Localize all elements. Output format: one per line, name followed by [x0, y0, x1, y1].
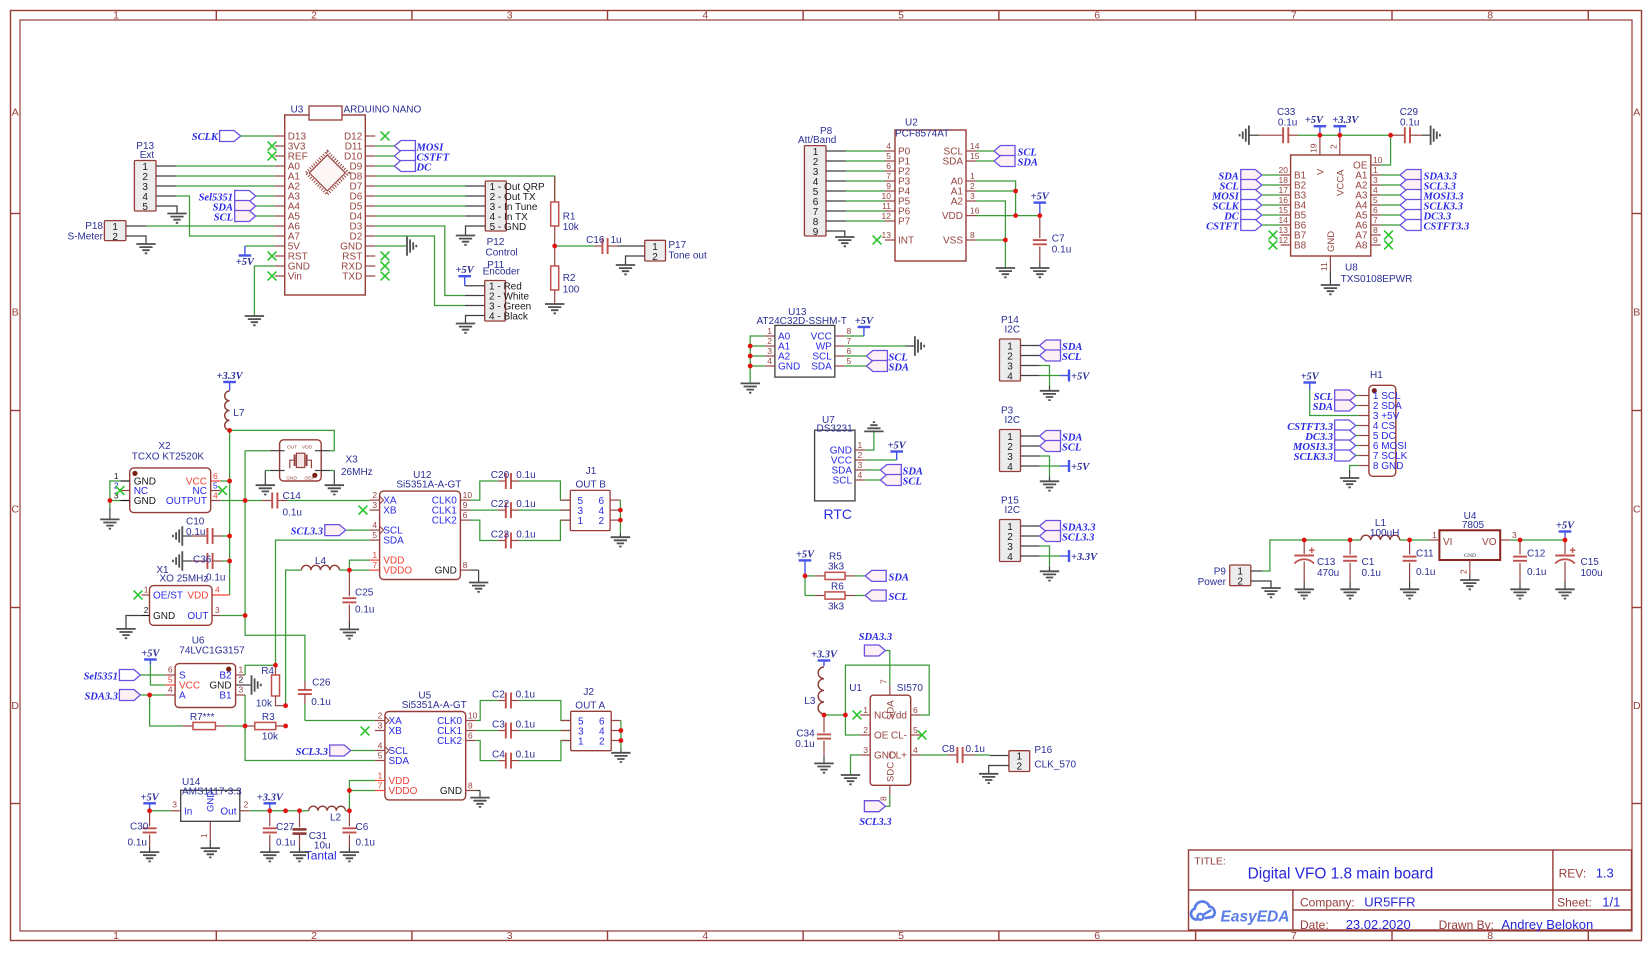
wire rail C27-C31 — [270, 810, 286, 812]
IC X1 XO 25MHz — [142, 565, 230, 625]
wire DC3.3 to H1 — [1356, 435, 1359, 437]
svg-text:5: 5 — [378, 751, 383, 761]
svg-text:SCL3.3: SCL3.3 — [1062, 533, 1094, 544]
svg-text:VDDO: VDDO — [389, 786, 418, 797]
svg-text:R4: R4 — [261, 666, 274, 677]
svg-text:4: 4 — [702, 930, 708, 942]
junction — [108, 498, 113, 503]
svg-text:0.1u: 0.1u — [516, 750, 535, 761]
svg-text:+5V: +5V — [1556, 521, 1575, 532]
capacitor C1 — [1343, 540, 1381, 589]
junction — [1013, 189, 1018, 194]
svg-text:5: 5 — [847, 356, 852, 366]
svg-text:+5V: +5V — [1305, 115, 1324, 126]
svg-text:P9: P9 — [1214, 567, 1227, 578]
junction — [243, 613, 248, 618]
svg-text:ARDUINO NANO: ARDUINO NANO — [344, 105, 422, 116]
wire P17.2 to ground — [626, 256, 645, 265]
ground — [136, 244, 155, 253]
ground — [201, 848, 220, 857]
svg-text:A8: A8 — [1355, 241, 1368, 252]
svg-text:7: 7 — [372, 560, 377, 570]
junction — [227, 534, 232, 539]
no-connect — [1269, 241, 1278, 250]
wire CL+ to C8 — [921, 754, 947, 756]
svg-text:SCL: SCL — [903, 477, 922, 488]
ground — [140, 852, 159, 861]
wire P8.5 to U2 P4 — [826, 190, 846, 192]
svg-text:B: B — [1633, 307, 1640, 319]
svg-text:C33: C33 — [1277, 107, 1296, 118]
svg-text:11: 11 — [1319, 262, 1329, 271]
svg-text:100u: 100u — [1581, 568, 1603, 579]
svg-text:C27: C27 — [276, 822, 295, 833]
svg-text:4: 4 — [858, 470, 863, 480]
wire D7 to P12.1 — [375, 185, 465, 187]
ground — [407, 236, 416, 255]
svg-text:16: 16 — [1279, 195, 1289, 205]
svg-text:0.1u: 0.1u — [356, 838, 375, 849]
net flag SCL — [1314, 390, 1356, 403]
svg-text:7: 7 — [879, 679, 889, 684]
net flag MOSI3.3 — [1292, 440, 1356, 453]
svg-text:CSTFT3.3: CSTFT3.3 — [1424, 222, 1470, 233]
svg-text:C4: C4 — [492, 750, 505, 761]
title block text — [1194, 856, 1620, 933]
svg-text:3: 3 — [858, 460, 863, 470]
svg-text:1: 1 — [114, 471, 119, 481]
ground — [979, 774, 998, 783]
wire D10 to CSTFT — [375, 155, 394, 157]
no-connect — [268, 272, 277, 281]
svg-text:C22: C22 — [491, 499, 510, 510]
svg-text:GND: GND — [778, 362, 800, 373]
power +5V — [140, 792, 159, 811]
svg-text:C12: C12 — [1527, 549, 1546, 560]
svg-text:2: 2 — [598, 516, 604, 527]
no-connect — [381, 262, 390, 271]
inductor L4 — [302, 556, 340, 570]
ground — [1295, 589, 1314, 598]
svg-text:6: 6 — [1094, 930, 1100, 942]
wire P14.1 — [1021, 345, 1040, 347]
wire P14.4 — [1021, 375, 1040, 377]
junction — [1407, 538, 1412, 543]
net flag SDA3.3 — [859, 632, 893, 656]
wire U14 Out to 3.3V rail — [250, 810, 270, 812]
svg-text:2: 2 — [767, 336, 772, 346]
resistor R5 — [805, 552, 865, 580]
ground — [116, 629, 135, 638]
svg-text:L7: L7 — [233, 408, 245, 419]
svg-text:2: 2 — [372, 490, 377, 500]
capacitor C20 — [470, 470, 570, 500]
IC U14 AMS1117-3.3 — [171, 777, 250, 840]
junction — [1318, 133, 1323, 138]
svg-text:SCL: SCL — [833, 476, 853, 487]
IC U7 DS3231 — [815, 415, 865, 522]
svg-text:2: 2 — [378, 711, 383, 721]
svg-text:OE/ST: OE/ST — [153, 591, 183, 602]
capacitor C2 — [476, 690, 571, 721]
svg-text:GND: GND — [435, 566, 457, 577]
svg-text:+5V: +5V — [855, 316, 874, 327]
svg-text:Sheet:: Sheet: — [1557, 896, 1592, 910]
net flag SCL — [880, 475, 921, 488]
svg-text:7: 7 — [847, 336, 852, 346]
svg-text:19: 19 — [1309, 143, 1319, 153]
wire Vdd loop — [845, 665, 929, 735]
net flag SCL — [1040, 441, 1082, 454]
svg-text:0.1u: 0.1u — [795, 739, 814, 750]
wire U13 SCL — [845, 355, 867, 357]
svg-text:2: 2 — [1329, 144, 1339, 149]
wire P13.4 to A7 — [156, 195, 176, 197]
svg-text:74LVC1G3157: 74LVC1G3157 — [179, 646, 245, 657]
wire X2 GND pins to ground — [110, 481, 120, 501]
svg-text:D: D — [1633, 700, 1641, 712]
capacitor C10 — [182, 517, 229, 545]
ground — [1555, 589, 1574, 598]
wire +5V node down to R6 — [804, 576, 806, 596]
svg-text:C2: C2 — [492, 690, 505, 701]
svg-text:9: 9 — [463, 500, 468, 510]
ground — [469, 583, 488, 592]
wire P15.1 — [1021, 525, 1040, 527]
IC U5 Si5351A-A-GT — [375, 691, 478, 800]
wire rail C13-C1 — [1304, 539, 1350, 541]
svg-text:2: 2 — [144, 605, 149, 615]
svg-text:100: 100 — [563, 285, 580, 296]
wire U12 GND to ground — [470, 569, 478, 571]
svg-text:SDA: SDA — [889, 573, 909, 584]
power +5V — [888, 441, 907, 461]
svg-text:C29: C29 — [1400, 107, 1419, 118]
wire rail C1-L1 — [1350, 539, 1361, 541]
wire CSTFT to U8 — [1262, 224, 1280, 226]
IC U4 7805 — [1429, 511, 1517, 575]
wire P15 ground — [1049, 556, 1051, 566]
wire P9.1 to rail — [1251, 570, 1262, 572]
no-connect — [268, 252, 277, 261]
IC U2 PCF8574AT — [882, 118, 980, 262]
capacitor C13 — [1294, 540, 1339, 589]
svg-text:10: 10 — [882, 191, 892, 201]
net flag SDA — [880, 465, 923, 478]
IC U6 74LVC1G3157 — [165, 636, 251, 708]
svg-text:I2C: I2C — [1005, 325, 1021, 336]
wire X2 VCC to 3.3V column — [221, 480, 230, 482]
no-connect — [381, 272, 390, 281]
wire MOSI to U8 — [1262, 194, 1280, 196]
power +3.3V — [1332, 115, 1359, 135]
wire P13.2 to A1 — [156, 175, 176, 177]
ground — [470, 798, 489, 807]
svg-text:20: 20 — [1279, 165, 1289, 175]
resistor R4 — [256, 665, 286, 709]
svg-text:OUT A: OUT A — [575, 701, 605, 712]
svg-text:2: 2 — [239, 675, 244, 685]
svg-text:OUT: OUT — [287, 444, 297, 450]
wire L1 to C11 — [1400, 539, 1410, 541]
no-connect — [116, 486, 125, 495]
svg-text:CLK2: CLK2 — [432, 516, 457, 527]
svg-text:8 GND: 8 GND — [1373, 461, 1404, 472]
wire column A (clock net) — [245, 451, 305, 681]
ground — [1040, 571, 1059, 580]
wire L2 to C6 node — [346, 810, 350, 812]
svg-text:C15: C15 — [1581, 557, 1600, 568]
svg-text:GND: GND — [440, 786, 462, 797]
svg-text:1: 1 — [239, 665, 244, 675]
wire U6 B2 to SDA column node — [245, 665, 275, 675]
resistor R1 — [551, 176, 580, 246]
wire P3 ground — [1049, 466, 1051, 476]
capacitor C31 tantalum — [293, 811, 337, 863]
svg-text:8: 8 — [468, 781, 473, 791]
ground — [340, 852, 359, 861]
svg-text:3: 3 — [767, 346, 772, 356]
svg-text:8: 8 — [1487, 10, 1493, 22]
svg-text:6: 6 — [463, 510, 468, 520]
svg-text:0.1u: 0.1u — [186, 527, 205, 538]
net flag SCL3.3 — [1400, 180, 1456, 193]
svg-text:0.1u: 0.1u — [355, 605, 374, 616]
wire P13.1 to A0 — [156, 165, 176, 167]
svg-text:7: 7 — [1291, 930, 1297, 942]
svg-text:GND: GND — [286, 476, 297, 482]
svg-text:5: 5 — [142, 202, 148, 213]
svg-text:+5V: +5V — [141, 649, 160, 660]
svg-text:2: 2 — [112, 232, 118, 243]
svg-text:6: 6 — [168, 665, 173, 675]
svg-text:0.1u: 0.1u — [1416, 567, 1435, 578]
svg-text:0.1u: 0.1u — [276, 838, 295, 849]
svg-text:+3.3V: +3.3V — [217, 371, 244, 382]
svg-text:L3: L3 — [804, 696, 816, 707]
wire SDA to U8 — [1262, 174, 1280, 176]
svg-text:4: 4 — [886, 141, 891, 151]
svg-text:A: A — [12, 107, 19, 119]
capacitor C3 — [476, 720, 571, 739]
svg-text:4: 4 — [213, 491, 218, 501]
svg-text:U2: U2 — [905, 118, 918, 129]
svg-text:4: 4 — [1007, 552, 1013, 563]
svg-text:GND: GND — [206, 791, 217, 812]
wire P15.4 — [1021, 555, 1040, 557]
connector P9 — [1198, 565, 1251, 588]
svg-text:1u: 1u — [611, 235, 622, 246]
svg-text:NC: NC — [874, 711, 888, 722]
wire J1 right pins to ground — [619, 500, 621, 533]
wire P8.6 to U2 P5 — [826, 200, 846, 202]
wire D4 to P12.4 — [375, 215, 465, 217]
net flag SCL3.3 — [291, 525, 346, 538]
power +5V — [1305, 115, 1326, 135]
junction — [243, 498, 248, 503]
svg-text:OE#: OE# — [305, 476, 315, 482]
ground — [864, 422, 883, 431]
title block — [1189, 850, 1632, 930]
IC U8 TXS0108EPWR — [1279, 140, 1413, 285]
wire U6 B1 down to R3 node — [244, 695, 246, 726]
power +3.3V — [217, 371, 244, 391]
svg-text:6: 6 — [1094, 10, 1100, 22]
ground — [1460, 580, 1479, 589]
wire P15.2 — [1021, 535, 1040, 537]
ground — [741, 383, 760, 392]
wire VCC to +5V — [845, 335, 864, 337]
junction — [803, 574, 808, 579]
wire VSS to ground — [976, 239, 1005, 241]
capacitor C30 — [128, 811, 157, 852]
svg-text:C1: C1 — [1362, 557, 1375, 568]
wire SDA to A4 — [256, 205, 275, 207]
wire P8.3 to U2 P2 — [826, 170, 846, 172]
svg-text:SDA: SDA — [389, 756, 410, 767]
no-connect — [1269, 231, 1278, 240]
svg-text:C36: C36 — [193, 555, 212, 566]
svg-text:13: 13 — [1279, 225, 1289, 235]
svg-text:+5V: +5V — [1301, 372, 1320, 383]
ground — [340, 629, 359, 638]
capacitor C23 — [470, 520, 570, 548]
svg-text:Tantal: Tantal — [305, 849, 337, 863]
wire 5V pin — [245, 245, 275, 247]
svg-text:SCL: SCL — [214, 213, 233, 224]
power +5V — [236, 246, 255, 268]
ground — [1340, 478, 1359, 487]
wire X3 OE to ground — [330, 470, 334, 472]
svg-text:P7: P7 — [898, 217, 911, 228]
svg-text:7: 7 — [886, 171, 891, 181]
svg-text:Vdd: Vdd — [889, 711, 907, 722]
wire D8 to R1 — [375, 176, 554, 202]
svg-text:A: A — [1633, 107, 1640, 119]
svg-text:TXD: TXD — [342, 272, 362, 283]
inductor L7 — [225, 391, 245, 430]
wire SCL to U8 — [1262, 184, 1280, 186]
wire VCCA node to OE — [1340, 134, 1391, 136]
svg-text:VDD: VDD — [942, 211, 963, 222]
svg-text:Vin: Vin — [288, 272, 302, 283]
net flag SDA — [866, 361, 909, 374]
svg-text:0.1u: 0.1u — [516, 720, 535, 731]
svg-text:5: 5 — [213, 481, 218, 491]
IC U3 ARDUINO NANO — [275, 105, 422, 296]
net flag SCLK — [192, 131, 241, 144]
wire P16.2 to ground — [989, 766, 1009, 774]
ground — [1400, 589, 1419, 598]
connector P15 — [1000, 496, 1021, 563]
svg-text:Date:: Date: — [1300, 918, 1329, 932]
junction — [227, 479, 232, 484]
ground — [611, 753, 630, 762]
svg-text:PCF8574AT: PCF8574AT — [895, 129, 949, 140]
net flag Sel5351 — [199, 191, 256, 204]
svg-text:0.1u: 0.1u — [206, 573, 225, 584]
svg-text:C30: C30 — [130, 822, 149, 833]
capacitor C11 — [1403, 540, 1436, 589]
wire +5V rail to U8 top — [1298, 134, 1320, 136]
svg-text:1: 1 — [113, 930, 119, 942]
svg-text:X3: X3 — [346, 455, 359, 466]
capacitor C15 — [1555, 540, 1603, 589]
svg-text:5: 5 — [1373, 195, 1378, 205]
wire U4 GND to ground — [1469, 575, 1471, 580]
svg-text:Si5351A-A-GT: Si5351A-A-GT — [402, 700, 467, 711]
wire DC to U8 — [1262, 214, 1280, 216]
svg-text:2: 2 — [244, 800, 249, 810]
svg-text:9: 9 — [1373, 235, 1378, 245]
net flag SDA — [865, 570, 909, 583]
svg-text:8: 8 — [463, 560, 468, 570]
junction — [283, 703, 288, 708]
inductor L2 — [309, 806, 346, 823]
svg-text:4: 4 — [702, 10, 708, 22]
wire R1R2 node to C16 — [555, 245, 595, 247]
svg-text:VDD: VDD — [302, 444, 313, 450]
net flag MOSI — [1211, 190, 1262, 203]
svg-text:C6: C6 — [356, 822, 369, 833]
junction — [843, 713, 848, 718]
wire U7 VCC to +5V — [865, 459, 897, 461]
svg-text:C7: C7 — [1052, 234, 1065, 245]
wire U2 SCL to flag — [976, 150, 994, 152]
capacitor C33 — [1249, 107, 1298, 143]
svg-text:1: 1 — [113, 10, 119, 22]
wire U14 GND to ground — [209, 840, 211, 848]
ground — [1431, 126, 1440, 145]
svg-text:R3: R3 — [262, 712, 275, 723]
wire U8 to CSTFT3.3 — [1381, 224, 1400, 226]
svg-text:+5V: +5V — [456, 265, 475, 276]
inductor L3 — [804, 667, 824, 714]
svg-text:P18: P18 — [85, 221, 103, 232]
svg-text:+3.3V: +3.3V — [1332, 115, 1359, 126]
svg-text:VI: VI — [1443, 537, 1452, 548]
svg-text:REV:: REV: — [1559, 867, 1587, 881]
svg-text:UR5FFR: UR5FFR — [1364, 895, 1415, 910]
svg-text:SDA: SDA — [942, 157, 963, 168]
svg-text:5: 5 — [898, 930, 904, 942]
junction — [227, 428, 232, 433]
wire X1 GND to ground — [126, 616, 142, 629]
junction — [618, 518, 623, 523]
svg-text:1.3: 1.3 — [1596, 866, 1614, 881]
svg-text:4: 4 — [1007, 371, 1013, 382]
power +5V — [796, 549, 815, 576]
svg-text:C25: C25 — [355, 588, 374, 599]
ground — [173, 551, 182, 570]
wire Sel5351 to A3 — [256, 195, 275, 197]
net flag SDA3.3 — [84, 690, 140, 703]
capacitor C36 — [182, 553, 229, 584]
svg-text:4: 4 — [1373, 185, 1378, 195]
capacitor C22 — [470, 499, 570, 518]
svg-text:TXS0108EPWR: TXS0108EPWR — [1341, 274, 1413, 285]
svg-text:Drawn By:: Drawn By: — [1439, 918, 1494, 932]
svg-text:6: 6 — [213, 471, 218, 481]
svg-text:Encoder: Encoder — [483, 267, 521, 278]
svg-text:8: 8 — [847, 326, 852, 336]
IC U13 AT24C32D-SSHM-T — [757, 307, 852, 377]
power +5V — [456, 265, 475, 286]
svg-text:C26: C26 — [312, 678, 331, 689]
connector P14 — [1000, 315, 1021, 382]
wire U13 SDA — [845, 365, 867, 367]
no-connect — [381, 132, 390, 141]
